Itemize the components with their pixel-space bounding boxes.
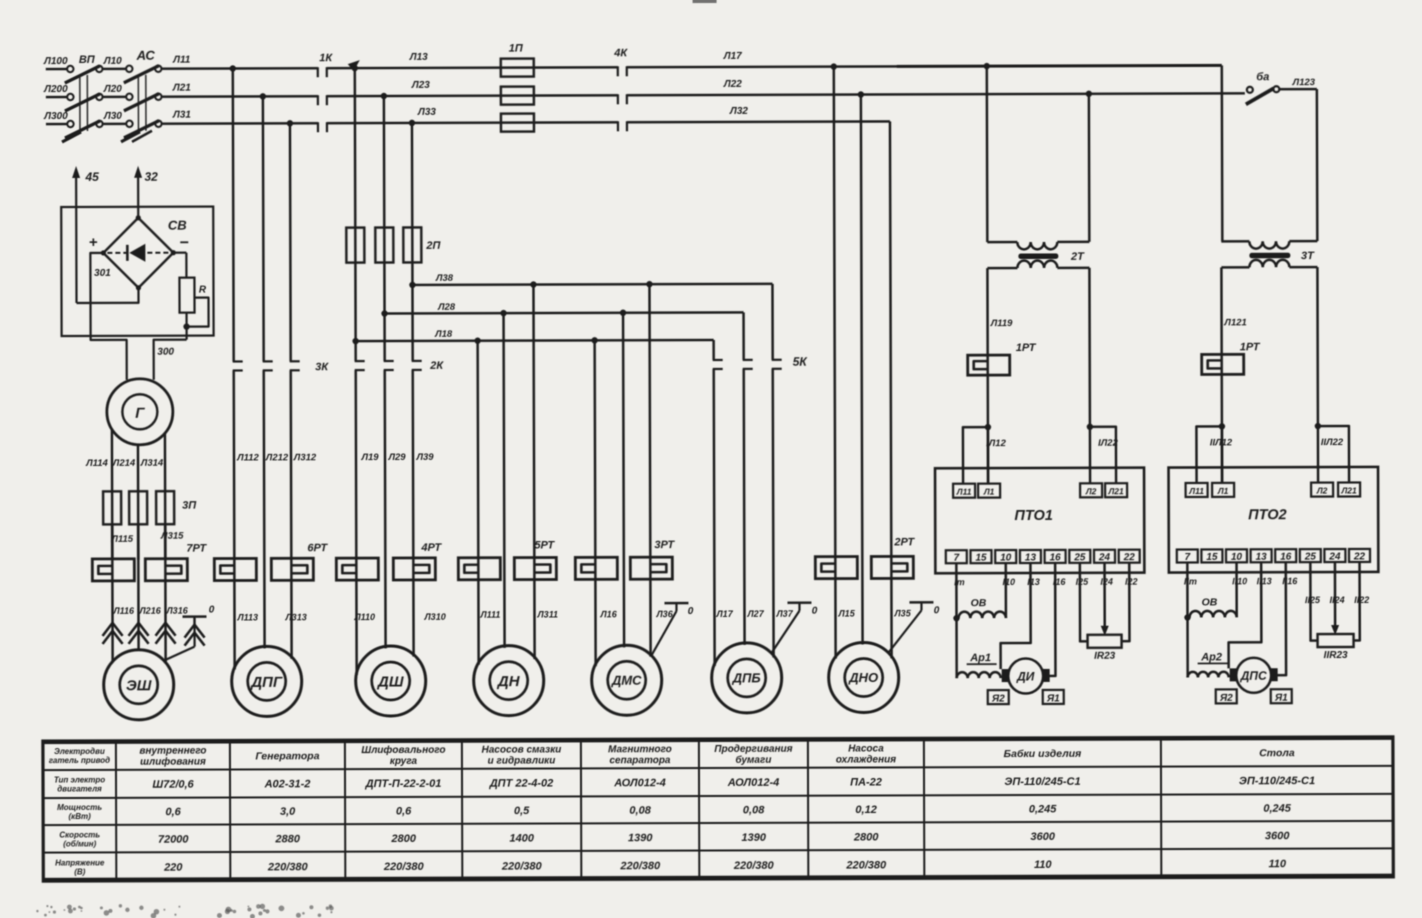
terminal 16 of ПТО1 <box>1045 550 1066 563</box>
thermal relay 5РТ <box>458 558 500 580</box>
svg-text:5К: 5К <box>793 355 809 369</box>
svg-text:Л114: Л114 <box>85 458 108 469</box>
svg-text:Скорость: Скорость <box>59 830 100 839</box>
svg-text:2880: 2880 <box>274 833 300 845</box>
svg-text:300: 300 <box>157 347 174 358</box>
terminal 24 of ПТО1 <box>1094 550 1115 563</box>
contactor 4К <box>617 66 619 76</box>
thermal relay 3РТ <box>575 557 617 579</box>
svg-text:ЭП-110/245-С1: ЭП-110/245-С1 <box>1004 776 1080 788</box>
svg-text:1390: 1390 <box>628 832 653 844</box>
svg-text:ВП: ВП <box>79 54 96 66</box>
svg-text:А02-31-2: А02-31-2 <box>264 778 311 790</box>
switch ВП <box>46 68 67 70</box>
terminal Л1 of ПТО1 <box>978 484 1000 498</box>
terminal 22 of ПТО1 <box>1119 550 1140 563</box>
svg-text:220/380: 220/380 <box>733 860 775 872</box>
wires Л112 Л212 Л312 droppers <box>232 69 235 362</box>
wire Л11 segment <box>161 67 318 70</box>
svg-text:ПТО2: ПТО2 <box>1248 507 1287 523</box>
svg-text:Л2: Л2 <box>1316 486 1328 496</box>
svg-text:Магнитного: Магнитного <box>608 744 672 755</box>
svg-text:3К: 3К <box>315 361 329 373</box>
svg-text:Л22: Л22 <box>723 79 742 90</box>
svg-text:Л119: Л119 <box>990 318 1013 329</box>
svg-text:(кВт): (кВт) <box>68 812 91 821</box>
svg-text:ДПТ-П-22-2-01: ДПТ-П-22-2-01 <box>365 778 442 790</box>
svg-text:3,0: 3,0 <box>280 806 296 818</box>
wire Л21 segment <box>161 95 318 98</box>
svg-text:круга: круга <box>390 756 418 767</box>
svg-text:Л310: Л310 <box>423 612 445 622</box>
svg-text:Л27: Л27 <box>746 609 764 619</box>
svg-text:ДПБ: ДПБ <box>732 671 761 686</box>
svg-text:Напряжение: Напряжение <box>55 858 105 867</box>
svg-text:Л1: Л1 <box>1217 486 1229 496</box>
thermal relay 6РТ <box>214 558 256 580</box>
svg-text:220/380: 220/380 <box>845 859 887 871</box>
wires to ДНО <box>834 67 836 659</box>
bridge rectifier СВ diamond <box>103 218 173 288</box>
svg-text:Л212: Л212 <box>265 452 289 463</box>
svg-text:внутреннего: внутреннего <box>139 746 206 757</box>
svg-text:IIЛ12: IIЛ12 <box>1210 437 1233 448</box>
svg-text:3600: 3600 <box>1265 830 1290 842</box>
svg-text:охлаждения: охлаждения <box>836 754 896 765</box>
svg-text:Продергивания: Продергивания <box>714 744 792 755</box>
svg-text:16: 16 <box>1050 552 1062 563</box>
svg-text:Л316: Л316 <box>165 606 188 616</box>
terminal 25 of ПТО1 <box>1069 550 1090 563</box>
svg-text:IIт: IIт <box>1184 576 1197 586</box>
wires to ДПБ via 5К <box>712 340 715 360</box>
svg-text:3Т: 3Т <box>1301 250 1315 262</box>
terminal 7 of ПТО1 <box>946 550 967 563</box>
svg-text:0,08: 0,08 <box>629 805 651 817</box>
svg-text:I22: I22 <box>1125 577 1138 587</box>
winding Ар1 <box>957 672 1001 678</box>
ground 0 for ЭШ <box>182 615 206 618</box>
svg-text:ПА-22: ПА-22 <box>850 776 882 788</box>
svg-text:Л11: Л11 <box>1188 486 1204 496</box>
svg-text:0: 0 <box>688 606 694 617</box>
terminal 10 of ПТО1 <box>995 550 1016 563</box>
svg-text:IIЛ22: IIЛ22 <box>1321 437 1344 448</box>
wire Л314 <box>164 434 167 560</box>
motor ЭШ <box>104 650 174 720</box>
wire Л121 <box>1220 267 1223 483</box>
resistor IR23 <box>1080 563 1088 642</box>
svg-text:IЛ22: IЛ22 <box>1098 438 1118 449</box>
dc motor ДПС <box>1230 668 1237 681</box>
svg-text:24: 24 <box>1328 552 1341 563</box>
svg-text:II25: II25 <box>1305 595 1321 605</box>
svg-text:Л16: Л16 <box>599 609 617 619</box>
svg-text:ДН: ДН <box>496 673 521 690</box>
svg-text:72000: 72000 <box>158 833 190 845</box>
wire II Л12 bracket <box>1196 426 1222 483</box>
svg-text:Л113: Л113 <box>236 612 258 622</box>
svg-text:Л36: Л36 <box>655 609 673 619</box>
wire Л17 <box>627 65 899 68</box>
svg-text:7: 7 <box>954 553 960 564</box>
svg-text:Мощность: Мощность <box>57 803 102 812</box>
ground 0 for ДМС <box>664 602 688 605</box>
wire II13 <box>1228 562 1261 668</box>
wire bottom vertex to 45 <box>76 288 138 303</box>
junction dots top lines <box>230 65 236 71</box>
svg-text:Л31: Л31 <box>172 110 191 121</box>
svg-text:2К: 2К <box>429 360 444 372</box>
wires to ДШ <box>354 370 357 675</box>
svg-text:Тип электро: Тип электро <box>54 775 105 784</box>
terminal Л21 of ПТО2 <box>1338 482 1360 496</box>
svg-text:7РТ: 7РТ <box>186 543 207 555</box>
svg-text:Л110: Л110 <box>353 612 375 622</box>
terminal 10 of ПТО2 <box>1226 549 1247 562</box>
generator Г <box>107 379 173 445</box>
svg-text:I24: I24 <box>1100 577 1113 587</box>
svg-text:ДПС: ДПС <box>1240 669 1267 683</box>
bus Л28 <box>385 312 744 313</box>
svg-text:II16: II16 <box>1282 576 1298 586</box>
svg-text:Я2: Я2 <box>991 694 1005 705</box>
svg-text:Л17: Л17 <box>723 51 742 62</box>
wire 3Т secondary right to ПТО2 <box>1316 267 1319 426</box>
contactor 1К <box>317 67 319 77</box>
svg-text:22: 22 <box>1123 552 1136 563</box>
terminal 15 of ПТО2 <box>1201 549 1222 562</box>
svg-text:Л33: Л33 <box>417 107 436 118</box>
thermal relay 2РТ <box>815 557 857 579</box>
svg-text:ПТО1: ПТО1 <box>1014 508 1053 524</box>
svg-text:Бабки изделия: Бабки изделия <box>1004 748 1082 760</box>
diode symbol <box>107 252 128 254</box>
svg-text:II24: II24 <box>1330 595 1345 605</box>
thermal relay 1РТ (right) <box>1202 354 1244 374</box>
svg-text:2РТ: 2РТ <box>893 536 915 548</box>
svg-text:Л21: Л21 <box>1340 485 1357 495</box>
svg-text:R: R <box>199 285 207 296</box>
svg-text:0: 0 <box>209 605 215 616</box>
svg-text:Стола: Стола <box>1259 747 1295 759</box>
svg-text:Л17: Л17 <box>715 609 733 619</box>
svg-text:Л37: Л37 <box>775 609 793 619</box>
wire IIт from terminal 7 <box>1186 563 1189 678</box>
svg-text:I10: I10 <box>1003 577 1016 587</box>
svg-text:0,08: 0,08 <box>743 804 765 816</box>
svg-text:220/380: 220/380 <box>619 860 661 872</box>
terminal 25 of ПТО2 <box>1300 549 1321 562</box>
svg-text:2800: 2800 <box>853 831 879 843</box>
svg-text:Шлифовального: Шлифовального <box>361 744 445 756</box>
svg-text:Л311: Л311 <box>536 609 558 619</box>
svg-text:Я1: Я1 <box>1046 693 1060 704</box>
wire I Л22 bracket <box>1090 427 1116 484</box>
svg-text:Л11: Л11 <box>172 55 191 66</box>
terminal Л11 of ПТО1 <box>953 484 975 498</box>
bus Л18 <box>356 340 714 341</box>
svg-text:25: 25 <box>1073 552 1086 563</box>
wires Л19 Л29 Л39 droppers <box>354 68 357 361</box>
thermal relay 1РТ (left) <box>968 355 1010 375</box>
motor ДМС <box>592 645 662 715</box>
svg-text:32: 32 <box>144 170 158 184</box>
svg-text:Л116: Л116 <box>112 606 135 616</box>
svg-text:0,12: 0,12 <box>855 804 876 816</box>
svg-text:22: 22 <box>1353 551 1366 562</box>
svg-text:13: 13 <box>1025 552 1037 563</box>
svg-text:5РТ: 5РТ <box>534 539 555 551</box>
fuse 1П (three) <box>501 59 534 77</box>
switch АС <box>96 66 102 72</box>
svg-text:Насоса: Насоса <box>848 743 884 754</box>
svg-text:0,6: 0,6 <box>165 806 181 818</box>
svg-text:СВ: СВ <box>168 218 187 233</box>
svg-text:220/380: 220/380 <box>501 860 543 872</box>
winding Ар2 <box>1188 672 1229 678</box>
svg-text:Л11: Л11 <box>956 487 972 497</box>
svg-text:2Т: 2Т <box>1070 251 1085 263</box>
svg-text:Л21: Л21 <box>172 83 191 94</box>
svg-text:(об/мин): (об/мин) <box>63 839 96 848</box>
thermal relay 7РТ <box>92 559 134 581</box>
svg-text:1РТ: 1РТ <box>1016 342 1037 354</box>
terminal Я2 <box>988 690 1009 704</box>
svg-text:4РТ: 4РТ <box>420 542 442 554</box>
svg-text:Л15: Л15 <box>837 609 855 619</box>
svg-text:25: 25 <box>1304 552 1317 563</box>
svg-text:ДНО: ДНО <box>848 670 878 685</box>
wires to ДПГ <box>232 370 235 669</box>
svg-text:ЭП-110/245-С1: ЭП-110/245-С1 <box>1239 775 1315 787</box>
svg-text:ДПТ 22-4-02: ДПТ 22-4-02 <box>489 777 554 789</box>
svg-text:10: 10 <box>1000 553 1012 564</box>
svg-text:Л300: Л300 <box>43 111 68 122</box>
svg-text:2П: 2П <box>425 240 441 252</box>
wire I13 <box>1000 563 1030 669</box>
svg-text:шлифования: шлифования <box>140 756 206 768</box>
resistor R <box>173 252 186 254</box>
wire Л32 <box>627 120 890 123</box>
motor ДН <box>474 646 544 716</box>
svg-text:24: 24 <box>1098 552 1111 563</box>
transformer 2Т <box>986 66 989 242</box>
wires into ЭШ with plug arrows <box>111 524 114 662</box>
wire I16 <box>1045 563 1055 676</box>
svg-text:Г: Г <box>135 405 145 422</box>
svg-text:Л312: Л312 <box>293 452 317 463</box>
svg-text:Ш72/0,6: Ш72/0,6 <box>152 779 194 791</box>
terminal Л21 of ПТО1 <box>1105 483 1127 497</box>
terminal Л2 of ПТО2 <box>1311 483 1333 497</box>
svg-text:7: 7 <box>1185 552 1191 563</box>
wire I Л12 bracket <box>963 427 988 484</box>
svg-text:II22: II22 <box>1354 595 1369 605</box>
terminal 13 of ПТО1 <box>1020 550 1041 563</box>
svg-text:ДМС: ДМС <box>611 673 642 688</box>
svg-text:ЭШ: ЭШ <box>126 677 152 694</box>
svg-text:(В): (В) <box>74 867 85 876</box>
svg-text:ба: ба <box>1256 71 1269 83</box>
svg-text:1К: 1К <box>319 52 333 64</box>
svg-text:Электродви: Электродви <box>54 747 105 756</box>
svg-text:110: 110 <box>1268 858 1286 870</box>
svg-text:Л200: Л200 <box>43 84 68 95</box>
svg-text:2800: 2800 <box>390 833 416 845</box>
svg-text:Л115: Л115 <box>110 534 133 545</box>
svg-text:1390: 1390 <box>741 832 766 844</box>
svg-text:Л19: Л19 <box>360 452 379 463</box>
terminal 22 of ПТО2 <box>1349 549 1370 562</box>
terminal 16 of ПТО2 <box>1275 549 1296 562</box>
switch ба on Л22 <box>1247 87 1253 93</box>
svg-text:ДШ: ДШ <box>376 673 404 690</box>
svg-text:Я1: Я1 <box>1274 693 1288 704</box>
svg-text:1400: 1400 <box>509 832 534 844</box>
arrow 45 <box>75 171 78 303</box>
scan artifacts bottom <box>139 906 143 910</box>
svg-text:Л21: Л21 <box>1107 486 1124 496</box>
svg-text:Л38: Л38 <box>435 273 454 284</box>
svg-text:Л30: Л30 <box>103 111 122 122</box>
terminal Я1 <box>1043 690 1064 704</box>
svg-text:3600: 3600 <box>1030 831 1055 843</box>
svg-text:АОЛ012-4: АОЛ012-4 <box>727 777 780 789</box>
wire 2Т secondary right to ПТО1 <box>1088 268 1091 427</box>
svg-text:Л216: Л216 <box>138 606 161 616</box>
terminal Л11 of ПТО2 <box>1186 483 1208 497</box>
ground 0 for ДНО <box>909 601 933 604</box>
svg-text:IR23: IR23 <box>1094 651 1116 662</box>
svg-text:АС: АС <box>136 48 156 63</box>
wire Л214 <box>137 445 140 560</box>
svg-text:220: 220 <box>163 861 183 873</box>
fuse 2П (three) <box>346 228 364 263</box>
terminal 15 of ПТО1 <box>970 550 991 563</box>
svg-text:Л2: Л2 <box>1085 486 1097 496</box>
dc motor ДИ <box>1002 669 1009 682</box>
svg-text:6РТ: 6РТ <box>307 542 328 554</box>
wire II Л22 bracket <box>1318 426 1349 483</box>
rectifier block box <box>61 207 213 336</box>
svg-text:II13: II13 <box>1257 576 1272 586</box>
svg-text:IЛ12: IЛ12 <box>986 438 1006 449</box>
svg-text:ДИ: ДИ <box>1016 669 1035 683</box>
svg-text:Л314: Л314 <box>140 458 164 469</box>
bus Л38 <box>412 284 772 285</box>
transformer 3Т <box>1221 65 1224 241</box>
svg-text:Л28: Л28 <box>437 302 456 313</box>
svg-text:+: + <box>89 234 98 251</box>
svg-text:гатель привод: гатель привод <box>49 756 110 765</box>
svg-text:Л10: Л10 <box>103 56 122 67</box>
svg-text:Л35: Л35 <box>893 608 911 618</box>
svg-text:0,6: 0,6 <box>396 805 412 817</box>
svg-text:сепаратора: сепаратора <box>609 755 670 766</box>
block ПТО1 <box>935 468 1144 574</box>
wire 300 <box>154 340 187 380</box>
winding ОВ <box>1235 562 1238 617</box>
svg-text:Л29: Л29 <box>387 452 406 463</box>
svg-text:и гидравлики: и гидравлики <box>488 755 556 766</box>
arrow marker on Л13 junction <box>348 60 360 71</box>
svg-text:Л214: Л214 <box>112 458 136 469</box>
svg-text:0,245: 0,245 <box>1263 803 1291 815</box>
terminal 7 of ПТО2 <box>1177 549 1198 562</box>
svg-text:15: 15 <box>1206 552 1218 563</box>
wire Л22 <box>627 93 1245 95</box>
svg-text:Iт: Iт <box>954 577 965 587</box>
wire Л13 <box>327 66 618 69</box>
wires to ДМС <box>595 340 596 666</box>
terminal Я1 <box>1271 689 1292 703</box>
svg-text:1РТ: 1РТ <box>1240 341 1261 353</box>
wire Iт from terminal 7 <box>955 563 958 678</box>
svg-text:Л313: Л313 <box>284 612 306 622</box>
svg-text:1П: 1П <box>509 43 524 55</box>
svg-text:Л111: Л111 <box>479 610 500 620</box>
svg-text:4К: 4К <box>613 47 628 59</box>
arrow 32 <box>137 171 139 218</box>
svg-text:I25: I25 <box>1076 577 1090 587</box>
winding ОВ <box>1004 563 1007 618</box>
svg-text:Ар2: Ар2 <box>1200 651 1222 663</box>
svg-text:220/380: 220/380 <box>383 861 425 873</box>
motor ДПГ <box>232 646 302 716</box>
svg-text:АОЛ012-4: АОЛ012-4 <box>613 777 666 789</box>
svg-text:0: 0 <box>934 605 940 616</box>
terminal Л2 of ПТО1 <box>1080 483 1102 497</box>
wire Л114 <box>111 430 114 560</box>
contactor 2К <box>355 360 365 362</box>
wire + node to generator <box>90 253 126 380</box>
motor ДНО <box>829 642 899 712</box>
svg-text:Я2: Я2 <box>1219 693 1233 704</box>
svg-text:Л39: Л39 <box>415 452 434 463</box>
wire II16 <box>1273 562 1286 675</box>
wire Л31 segment <box>161 122 318 125</box>
contactor 3К <box>233 360 243 362</box>
svg-text:45: 45 <box>84 170 99 184</box>
block ПТО2 <box>1169 467 1379 573</box>
wire Л33 <box>327 121 618 124</box>
fuse 3П (three) <box>103 491 121 524</box>
svg-text:двигателя: двигателя <box>57 784 102 793</box>
ground 0 for ДПБ <box>787 601 811 604</box>
motor ДШ <box>356 646 426 716</box>
svg-text:301: 301 <box>94 268 111 279</box>
svg-text:−: − <box>180 235 189 252</box>
svg-text:Л123: Л123 <box>1292 77 1316 88</box>
R wiper loop <box>186 298 208 327</box>
svg-text:ОВ: ОВ <box>1202 596 1218 608</box>
svg-text:0: 0 <box>812 606 818 617</box>
svg-text:Л112: Л112 <box>236 452 259 463</box>
svg-text:Л23: Л23 <box>411 80 430 91</box>
svg-text:Л32: Л32 <box>729 106 748 117</box>
wire Л119 <box>986 268 989 484</box>
svg-text:ОВ: ОВ <box>971 597 987 609</box>
wires to ДН <box>478 341 479 665</box>
svg-text:0,5: 0,5 <box>514 805 530 817</box>
svg-text:Л13: Л13 <box>409 52 428 63</box>
resistor IIR23 <box>1310 562 1317 641</box>
svg-text:Л1: Л1 <box>983 487 995 497</box>
svg-text:0,245: 0,245 <box>1029 803 1057 815</box>
svg-text:II10: II10 <box>1232 576 1247 586</box>
svg-text:I16: I16 <box>1053 577 1067 587</box>
